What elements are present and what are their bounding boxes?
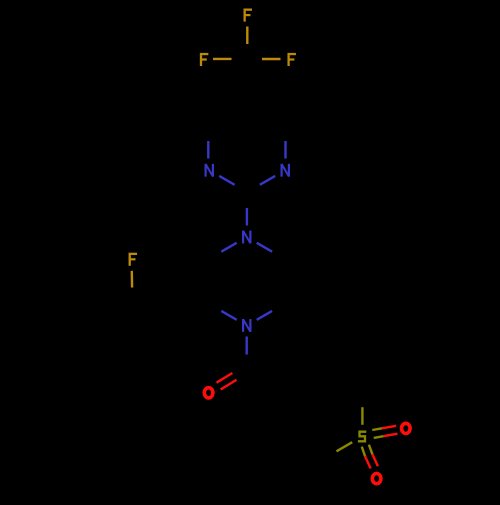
node N4 piperazine (243, 231, 250, 244)
wire pyrimidine N3 to C2 (blue half) (219, 176, 234, 185)
wire C=O carbonyl double bond line 2 (red half) (221, 380, 237, 390)
wire S up to CH2 chain (olive half) (361, 407, 363, 425)
wire piperazine N1 to C2ax (blue half) (221, 311, 236, 320)
wire F-left to CF3 carbon (gold half) (213, 58, 232, 60)
node F left of CF3 group (200, 54, 209, 66)
wire F-right to CF3 carbon (gold half) (262, 58, 281, 60)
wire S=O right double bond line 2 red half (383, 434, 397, 437)
wire S=O right double bond line 2 olive half (374, 436, 384, 438)
wire S=O bottom double bond line 2 olive half (369, 445, 373, 455)
wire pyrimidine N1 up to C6 (blue half) (284, 141, 286, 159)
node S sulfonyl sulfur (358, 432, 366, 442)
node F top of CF3 group (244, 10, 253, 22)
wire S=O bottom double bond line 2 red half (372, 454, 378, 466)
wire pyrimidine N3 up to C4 (blue half) (207, 141, 209, 159)
node F right of CF3 group (287, 54, 296, 66)
wire pyrimidine C2 to piperazine N4 (blue half) (246, 208, 248, 226)
node F on fluorophenyl ring (129, 254, 138, 266)
wire piperazine N1 to C6eq (blue half) (257, 311, 272, 320)
wire F-phenyl to ring C2-prime (gold half) (131, 271, 134, 288)
node O sulfonyl oxygen right (402, 423, 411, 433)
wire piperazine N1 down to carbonyl C (blue half) (245, 337, 247, 355)
wire S=O right double bond line 1 red half (382, 426, 396, 429)
wire S=O right double bond line 1 olive half (372, 428, 382, 430)
wire C=O carbonyl double bond line 1 (red half) (217, 373, 233, 383)
wire piperazine N4 to C3 (blue half) (221, 243, 236, 252)
node O carbonyl oxygen (204, 388, 213, 398)
wire S=O bottom double bond line 1 olive half (362, 447, 365, 457)
node N1 pyrimidine (282, 164, 289, 177)
wire F-top to CF3 carbon (gold half) (246, 27, 248, 45)
node N1 piperazine (243, 319, 250, 332)
wire piperazine N4 to C5 (blue half) (257, 243, 272, 252)
wire pyrimidine N1 to C2 (blue half) (260, 176, 275, 185)
node N3 pyrimidine (206, 164, 213, 177)
wire S to methyl CH3 (olive half) (337, 442, 353, 451)
node O sulfonyl oxygen bottom (372, 474, 381, 484)
wire S=O bottom double bond line 1 red half (365, 456, 371, 468)
